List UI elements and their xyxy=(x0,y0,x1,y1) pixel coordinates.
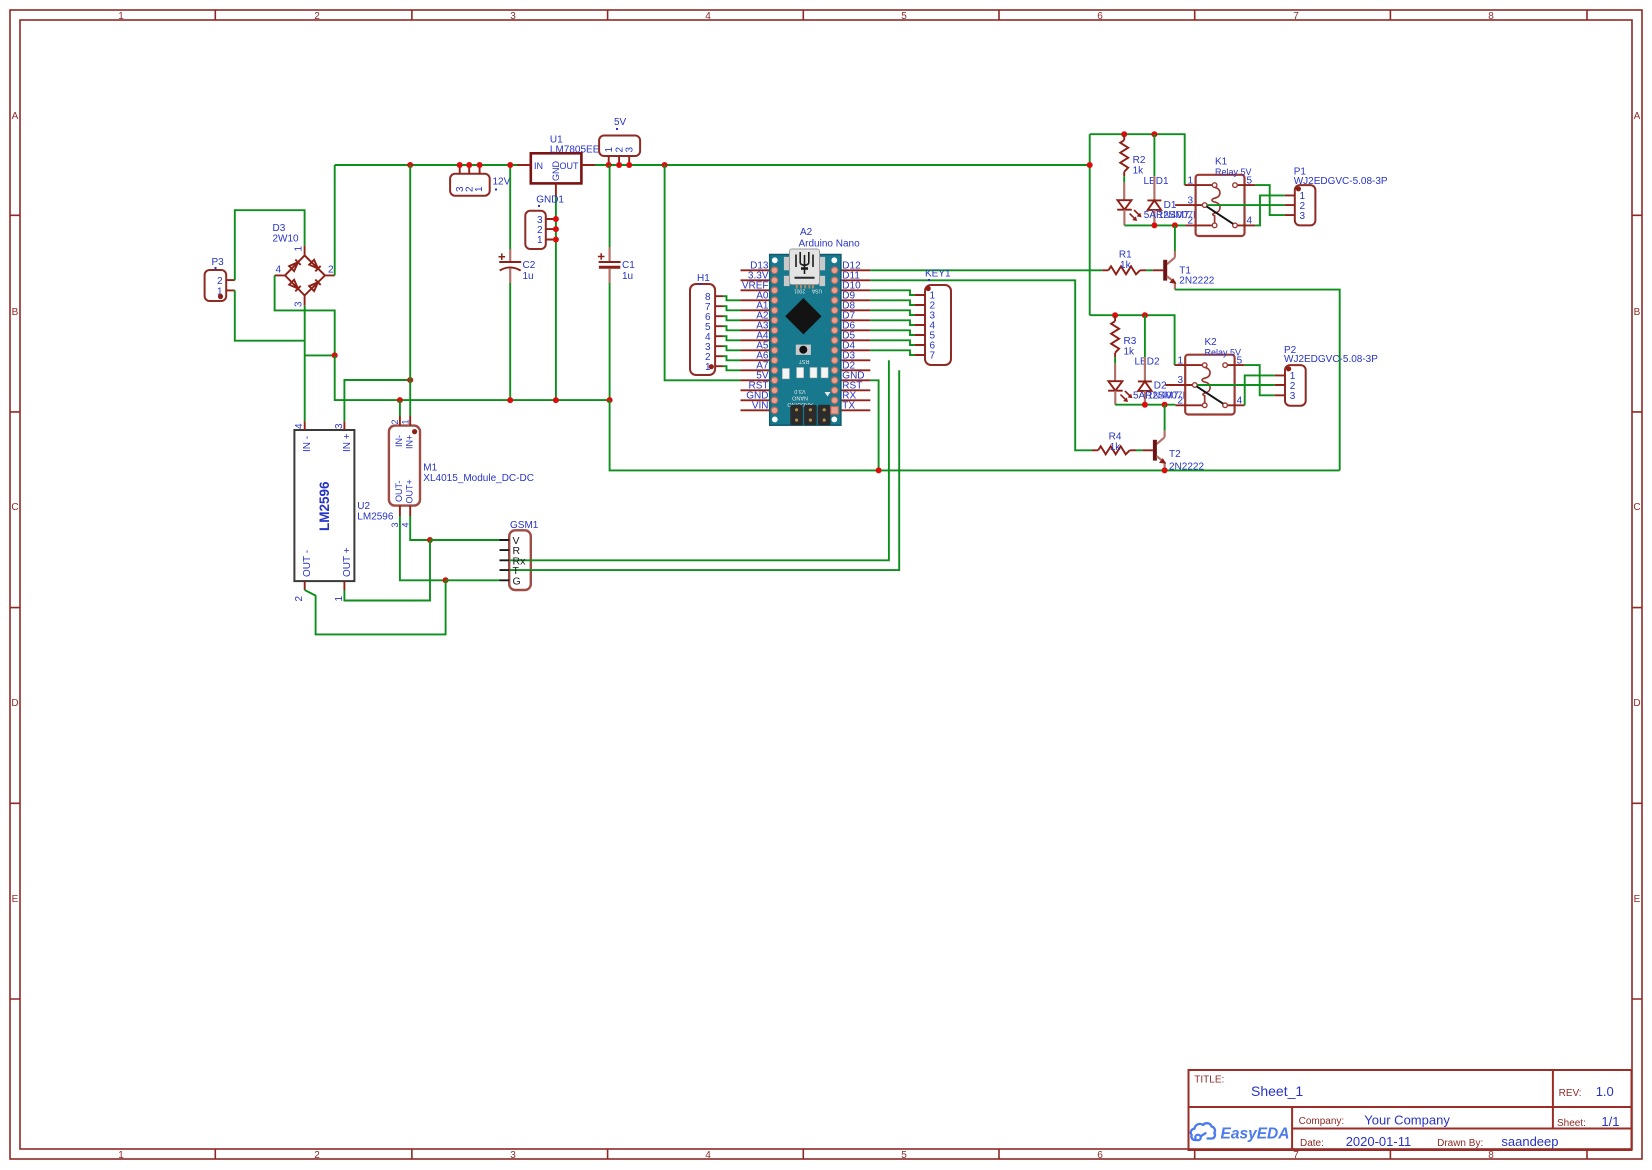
svg-text:D: D xyxy=(1633,698,1640,709)
wire junction to left xyxy=(305,354,335,356)
row ticks right xyxy=(1632,215,1642,999)
svg-text:P3: P3 xyxy=(212,257,225,268)
diode D2 xyxy=(1138,315,1152,405)
svg-text:Date:: Date: xyxy=(1300,1138,1324,1149)
svg-text:3: 3 xyxy=(334,423,345,429)
junction dot M1 IN- on GND rail xyxy=(397,397,403,403)
svg-text:1: 1 xyxy=(1187,175,1193,186)
svg-text:3: 3 xyxy=(390,522,400,527)
svg-text:saandeep: saandeep xyxy=(1501,1134,1558,1149)
svg-text:8: 8 xyxy=(1488,11,1494,22)
connector GND1 xyxy=(525,211,559,249)
svg-text:1: 1 xyxy=(401,419,411,424)
svg-text:D: D xyxy=(11,698,18,709)
svg-text:2N2222: 2N2222 xyxy=(1179,276,1214,287)
board texts xyxy=(787,358,813,407)
junction dot GND1 rail xyxy=(553,397,559,403)
junction dot M1 vertical xyxy=(407,162,413,168)
module M1 XL4015 xyxy=(389,416,420,528)
arduino left pin stubs xyxy=(741,270,770,410)
svg-text:IN -: IN - xyxy=(302,436,313,452)
svg-text:GND1: GND1 xyxy=(536,195,564,206)
wires H1 to A0-A7 xyxy=(723,296,741,370)
wire 5V branch vertical xyxy=(1089,134,1091,315)
svg-text:XL4015_Module_DC-DC: XL4015_Module_DC-DC xyxy=(423,473,534,484)
buck converter U2 LM2596 xyxy=(294,421,354,601)
junction dot D1 top xyxy=(1151,131,1157,137)
row letters right xyxy=(1633,111,1640,905)
wire K1 bottom rail xyxy=(1124,224,1185,226)
svg-text:3: 3 xyxy=(510,1150,516,1161)
wire K2 pin5 to P2 pin3 xyxy=(1245,365,1275,395)
svg-text:LM7805EE: LM7805EE xyxy=(550,144,600,155)
wire GSM1 Rx to D3 xyxy=(510,360,889,560)
svg-text:Sheet:: Sheet: xyxy=(1557,1118,1586,1129)
svg-text:1: 1 xyxy=(118,11,124,22)
svg-text:TX: TX xyxy=(842,400,855,411)
svg-text:OUT: OUT xyxy=(560,161,580,171)
column numbers bottom xyxy=(118,1150,1494,1161)
svg-text:Drawn By:: Drawn By: xyxy=(1437,1138,1483,1149)
svg-text:IN +: IN + xyxy=(342,433,353,452)
svg-text:OUT -: OUT - xyxy=(302,550,313,577)
svg-text:LED1: LED1 xyxy=(1144,176,1169,187)
junction dot R2 top xyxy=(1121,131,1127,137)
wire D11 to R4 xyxy=(870,280,1092,450)
svg-text:C: C xyxy=(1633,502,1640,513)
wire K1 pin3 to P1 pin2 xyxy=(1207,204,1285,206)
pads left xyxy=(771,267,778,414)
svg-text:LM2596: LM2596 xyxy=(317,481,332,531)
diode on edge 3-2 xyxy=(309,280,321,292)
svg-text:1k: 1k xyxy=(1120,260,1132,271)
junction dot 5V feed xyxy=(662,162,668,168)
junction dot xyxy=(407,377,413,383)
svg-text:LM2596: LM2596 xyxy=(357,512,394,523)
junction dot V node xyxy=(427,537,433,543)
svg-text:VIN: VIN xyxy=(752,400,769,411)
svg-text:E: E xyxy=(12,894,19,905)
mcu chip xyxy=(785,298,821,334)
svg-text:2: 2 xyxy=(314,11,320,22)
svg-text:1: 1 xyxy=(604,147,615,153)
wire K1 pin5 to P1 pin3 xyxy=(1255,185,1285,215)
junction dot D2 bottom xyxy=(1142,402,1148,408)
svg-text:6: 6 xyxy=(1097,11,1103,22)
wires D10-D4 to KEY1 xyxy=(870,290,914,355)
wire 5V feed to Arduino xyxy=(665,165,741,380)
junction dot xyxy=(332,352,338,358)
pads right xyxy=(831,267,839,414)
arduino left pin names xyxy=(742,260,769,411)
svg-text:6: 6 xyxy=(1097,1150,1103,1161)
svg-text:2N2222: 2N2222 xyxy=(1169,462,1204,473)
svg-text:3: 3 xyxy=(1290,391,1296,402)
svg-text:B: B xyxy=(1634,307,1641,318)
led LED1 xyxy=(1117,183,1141,226)
arduino right pin names xyxy=(842,260,864,411)
svg-text:REV:: REV: xyxy=(1559,1088,1582,1099)
wire K1 pin4 to P1 pin1 xyxy=(1255,195,1285,225)
svg-text:1/1: 1/1 xyxy=(1601,1114,1619,1129)
column ticks top xyxy=(215,10,1587,20)
svg-text:1.0: 1.0 xyxy=(1596,1084,1614,1099)
svg-text:H1: H1 xyxy=(697,273,710,284)
wire K2 pin3 to P2 pin2 xyxy=(1197,384,1275,386)
svg-text:1: 1 xyxy=(537,235,543,246)
label dots xyxy=(215,128,931,285)
regulator U1 LM7805EE xyxy=(517,153,595,197)
column ticks bottom xyxy=(215,1149,1587,1159)
svg-text:C2: C2 xyxy=(523,260,536,271)
svg-text:EasyEDA: EasyEDA xyxy=(1221,1126,1290,1143)
GSM1 pin labels xyxy=(513,535,527,587)
connector P3 xyxy=(205,270,235,301)
svg-text:OUT-: OUT- xyxy=(394,480,404,502)
resistor R3 xyxy=(1111,316,1119,364)
capacitor C1 xyxy=(598,165,621,403)
svg-text:IN+: IN+ xyxy=(405,435,415,449)
svg-text:5V: 5V xyxy=(614,117,627,128)
svg-text:G: G xyxy=(513,575,521,587)
transistor T2 xyxy=(1143,405,1167,471)
led LED2 xyxy=(1108,364,1132,405)
svg-text:2: 2 xyxy=(1187,216,1193,227)
svg-text:5: 5 xyxy=(901,11,907,22)
svg-text:V3.0: V3.0 xyxy=(794,388,805,394)
svg-text:R3: R3 xyxy=(1124,336,1137,347)
diode on edge 1-2 xyxy=(309,260,321,272)
svg-text:1u: 1u xyxy=(523,271,534,282)
svg-text:12V: 12V xyxy=(493,177,511,188)
svg-text:M1: M1 xyxy=(423,463,437,474)
connector 5V output xyxy=(599,136,640,169)
wire U2 pin3 to M1 IN+ xyxy=(344,380,410,421)
icsp header xyxy=(790,405,803,426)
wire U2 pin1 up to V node xyxy=(344,540,430,601)
svg-text:2: 2 xyxy=(294,596,305,602)
svg-text:NANO: NANO xyxy=(791,395,808,401)
arduino right pin stubs xyxy=(841,270,870,410)
junction dot 5V rail xyxy=(1087,162,1093,168)
svg-text:K1: K1 xyxy=(1215,157,1228,168)
svg-text:7: 7 xyxy=(930,351,936,362)
svg-text:R4: R4 xyxy=(1109,432,1122,443)
svg-text:Relay 5V: Relay 5V xyxy=(1205,347,1242,357)
svg-text:5: 5 xyxy=(901,1150,907,1161)
svg-text:1: 1 xyxy=(474,186,485,192)
svg-text:7: 7 xyxy=(1293,11,1299,22)
svg-text:1u: 1u xyxy=(622,271,633,282)
svg-text:3: 3 xyxy=(1177,375,1183,386)
svg-text:Company:: Company: xyxy=(1299,1116,1345,1127)
svg-text:1k: 1k xyxy=(1133,166,1145,177)
svg-text:1: 1 xyxy=(1177,355,1183,366)
svg-text:Arduino Nano: Arduino Nano xyxy=(799,239,861,250)
junction dot T2 collector xyxy=(1162,402,1168,408)
connector P2 xyxy=(1275,365,1306,406)
svg-text:Your Company: Your Company xyxy=(1364,1113,1450,1128)
junction dot D1 bottom xyxy=(1151,222,1157,228)
svg-text:A: A xyxy=(12,111,19,122)
svg-text:A2: A2 xyxy=(800,227,813,238)
svg-text:Relay 5V: Relay 5V xyxy=(1215,167,1252,177)
smd leds xyxy=(782,369,789,379)
svg-text:4: 4 xyxy=(294,423,305,429)
svg-text:TITLE:: TITLE: xyxy=(1194,1075,1224,1086)
wire bridge pin2 up to 12V rail xyxy=(334,165,336,275)
svg-text:3: 3 xyxy=(1187,195,1193,206)
usb connector xyxy=(790,249,820,285)
wire T1 emitter loop xyxy=(1175,290,1340,471)
wire P3 pin1 to bridge pin3 xyxy=(235,290,305,340)
wire K2 feed horizontal xyxy=(1090,315,1175,365)
svg-text:A: A xyxy=(1634,111,1641,122)
wire 12V rail xyxy=(335,164,517,166)
wire bridge pin4 loop xyxy=(275,275,335,355)
wire K1 top rail xyxy=(1090,134,1185,185)
svg-text:2: 2 xyxy=(1177,395,1183,406)
svg-text:2: 2 xyxy=(314,1150,320,1161)
junction dot R3 top xyxy=(1112,312,1118,318)
svg-text:4: 4 xyxy=(401,522,411,527)
diode on edge 4-3 xyxy=(289,280,301,292)
connector KEY1 xyxy=(915,285,951,365)
resistor R4 xyxy=(1092,446,1143,454)
svg-text:D3: D3 xyxy=(273,223,286,234)
svg-text:1k: 1k xyxy=(1110,442,1122,453)
svg-text:R2: R2 xyxy=(1133,155,1146,166)
wire down to GND rail xyxy=(335,355,610,400)
svg-text:WJ2EDGVC-5.08-3P: WJ2EDGVC-5.08-3P xyxy=(1294,176,1388,187)
svg-text:4: 4 xyxy=(1247,216,1253,227)
column numbers top xyxy=(118,11,1494,22)
rst button xyxy=(796,345,811,355)
transistor T1 xyxy=(1153,225,1177,289)
module GSM1 xyxy=(500,530,531,590)
svg-text:8: 8 xyxy=(1488,1150,1494,1161)
wire M1 IN- up to GND rail xyxy=(399,400,401,416)
svg-text:T2: T2 xyxy=(1169,449,1181,460)
label D2 value overlap xyxy=(1133,390,1203,401)
svg-text:WJ2EDGVC-5.08-3P: WJ2EDGVC-5.08-3P xyxy=(1284,354,1378,365)
svg-text:1k: 1k xyxy=(1124,347,1136,358)
wire U2 pin2 loop to G node xyxy=(305,580,446,634)
wire U1 GND down xyxy=(555,197,557,400)
svg-text:2001: 2001 xyxy=(794,288,805,294)
relay K2 xyxy=(1165,355,1244,415)
wire M1 OUT- to G node xyxy=(400,516,446,580)
svg-text:7: 7 xyxy=(1293,1150,1299,1161)
svg-text:2: 2 xyxy=(390,419,400,424)
relay K1 xyxy=(1175,175,1255,236)
corner holes xyxy=(772,257,778,263)
wire D12 to R1 xyxy=(870,269,1102,271)
wire 12V down to M1 IN+ xyxy=(409,165,411,416)
svg-text:4: 4 xyxy=(1237,395,1243,406)
svg-text:GND: GND xyxy=(551,161,561,182)
junction dot T2 emitter xyxy=(1162,467,1168,473)
svg-text:3: 3 xyxy=(1300,211,1306,222)
wire arduino GND to rail xyxy=(870,380,878,470)
junction dot G node xyxy=(443,577,449,583)
diode D1 xyxy=(1147,134,1161,225)
svg-text:U2: U2 xyxy=(357,501,370,512)
wire P3 pin2 to bridge pin1 xyxy=(235,210,305,280)
wire U1 OUT to 5V rail xyxy=(595,164,1090,166)
svg-text:3: 3 xyxy=(625,147,636,153)
svg-text:R1: R1 xyxy=(1119,250,1132,261)
svg-text:2W10: 2W10 xyxy=(273,234,300,245)
bridge rectifier D3 xyxy=(275,246,335,308)
EasyEDA logo xyxy=(1191,1123,1290,1142)
svg-text:OUT+: OUT+ xyxy=(405,479,415,503)
wire M1 OUT+ to GSM V xyxy=(410,516,430,540)
svg-text:1: 1 xyxy=(294,246,305,252)
connector 12V input xyxy=(450,162,490,196)
connector P1 xyxy=(1285,185,1316,225)
resistor R1 xyxy=(1102,266,1153,274)
capacitor C2 xyxy=(499,162,522,403)
wire bridge pin3 down to U2 pin4 xyxy=(304,306,306,422)
svg-text:2020-01-11: 2020-01-11 xyxy=(1346,1134,1412,1149)
label D1 value overlap xyxy=(1144,210,1214,221)
svg-text:4: 4 xyxy=(275,265,281,276)
junction dot GND rail xyxy=(876,467,882,473)
svg-text:1: 1 xyxy=(334,596,345,602)
wire V node to GSM1 V xyxy=(430,539,500,541)
wire G node to GSM1 G xyxy=(446,579,500,581)
row ticks left xyxy=(10,215,20,999)
svg-text:LED2: LED2 xyxy=(1135,357,1160,368)
arduino board A2 xyxy=(770,249,841,425)
svg-text:IN-: IN- xyxy=(394,435,404,447)
wire C1 ground down to lower rail xyxy=(610,400,1340,470)
svg-text:4: 4 xyxy=(705,1150,711,1161)
resistor R2 xyxy=(1120,135,1128,183)
title block frame xyxy=(1189,1070,1632,1150)
svg-text:Sheet_1: Sheet_1 xyxy=(1251,1083,1303,1099)
svg-text:1: 1 xyxy=(118,1150,124,1161)
svg-text:2: 2 xyxy=(328,265,334,276)
junction dot D2 top xyxy=(1142,312,1148,318)
svg-text:IN: IN xyxy=(534,161,543,171)
connector H1 xyxy=(690,284,723,375)
svg-text:GSM1: GSM1 xyxy=(510,520,539,531)
diode on edge 4-1 xyxy=(289,260,301,272)
svg-text:E: E xyxy=(1634,894,1641,905)
svg-text:USA: USA xyxy=(811,288,822,294)
wire K2 pin4 to P2 pin1 xyxy=(1245,375,1275,405)
wire K2 bottom rail xyxy=(1115,404,1175,406)
svg-text:3: 3 xyxy=(294,301,305,307)
svg-text:RST: RST xyxy=(798,358,810,364)
svg-text:C: C xyxy=(11,502,18,513)
svg-text:K2: K2 xyxy=(1205,337,1218,348)
svg-text:C1: C1 xyxy=(622,260,635,271)
svg-text:3: 3 xyxy=(510,11,516,22)
wire GSM1 T to D2 xyxy=(510,370,899,570)
svg-text:KEY1: KEY1 xyxy=(925,269,951,280)
row letters left xyxy=(11,111,18,905)
svg-text:4: 4 xyxy=(705,11,711,22)
svg-text:B: B xyxy=(12,307,19,318)
junction dot T1 collector xyxy=(1172,222,1178,228)
svg-text:OUT +: OUT + xyxy=(342,547,353,577)
